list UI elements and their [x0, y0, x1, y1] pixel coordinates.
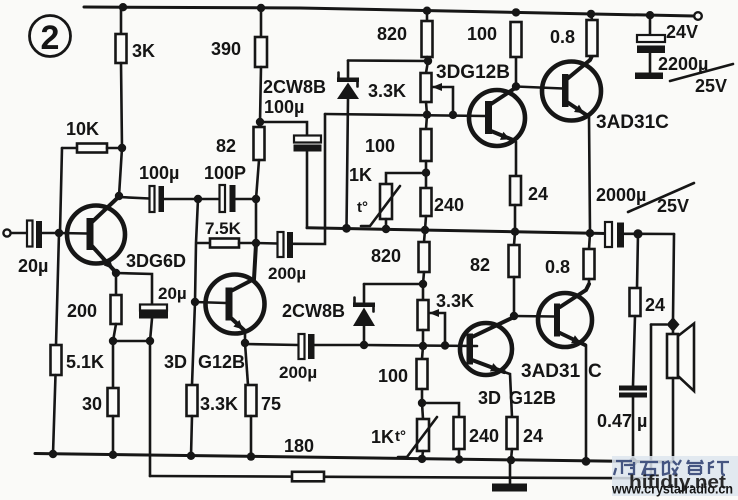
node: Q4 collector / Q5l base — [510, 312, 518, 320]
wire: base node to 5.1K — [56, 233, 59, 345]
resistor 180 — [284, 436, 324, 481]
svg-text:200µ: 200µ — [279, 363, 317, 382]
node: Q1 emitter — [112, 269, 120, 277]
wire: Q5u emitter to mid rail — [589, 116, 590, 233]
node: 390 bottom / bootstrap — [256, 118, 264, 126]
wire: 82 bottom node down to 7.5K node — [255, 199, 258, 243]
svg-text:180: 180 — [284, 436, 314, 456]
svg-text:2CW8B: 2CW8B — [282, 301, 345, 321]
wire: zener top to 820 bottom — [364, 280, 427, 288]
wire: 10K left end down to Q1 base node — [60, 148, 62, 232]
svg-text:100µ: 100µ — [139, 163, 179, 183]
svg-text:20µ: 20µ — [158, 284, 187, 303]
wire: 820 bottom to zener top — [348, 57, 432, 65]
svg-text:2200µ: 2200µ — [658, 54, 708, 74]
potentiometer 3.3K upper bias — [368, 61, 453, 115]
svg-text:3DG12B: 3DG12B — [436, 62, 510, 83]
svg-text:0.8: 0.8 — [550, 27, 575, 47]
wire: speaker top to feedback line — [651, 325, 667, 479]
wire: speaker bottom to ground rail — [672, 378, 675, 462]
node: Q2 emitter — [241, 339, 249, 347]
wire: feedback node link — [113, 340, 150, 343]
node: output junction — [633, 229, 642, 238]
svg-text:5.1K: 5.1K — [66, 352, 104, 372]
speaker — [667, 324, 694, 392]
ground symbol — [492, 460, 527, 492]
wire: output to speaker top — [673, 234, 674, 319]
transistor Q3 3DG12B upper driver — [436, 62, 525, 146]
svg-text:C: C — [588, 361, 602, 382]
svg-text:25V: 25V — [657, 196, 689, 216]
resistor 30 — [82, 341, 119, 455]
node: Q3 collector / 100 load / Q5u base — [512, 57, 563, 91]
node: bypass cap bottom — [146, 337, 154, 345]
svg-text:0.8: 0.8 — [545, 257, 570, 277]
svg-text:3.3K: 3.3K — [436, 291, 474, 311]
svg-text:3DG6D: 3DG6D — [126, 251, 186, 271]
capacitor 100u interstage coupling — [119, 163, 198, 212]
wire: lower base line — [364, 345, 477, 346]
resistor 100 middle — [365, 115, 432, 173]
resistor 24 lower — [507, 417, 544, 460]
node: 100u / 100P junction — [194, 195, 202, 203]
wire: feedback vertical to bottom feedback rail — [149, 341, 152, 476]
wire: Q3 emitter to 24 — [513, 140, 516, 176]
node: 100 lower bottom — [418, 399, 426, 407]
resistor 100 lower — [378, 346, 428, 403]
transistor Q4 3DG12B lower driver — [460, 317, 556, 408]
svg-text:820: 820 — [371, 246, 401, 266]
resistor 0.8 lower — [545, 233, 595, 284]
wire: Q2 base bias vertical — [191, 199, 199, 385]
resistor 240 upper — [421, 173, 465, 230]
svg-text:20µ: 20µ — [18, 256, 48, 276]
input terminal — [3, 229, 27, 236]
wire: Q4 emitter to 24 lower — [504, 372, 512, 417]
svg-text:3AD31: 3AD31 — [521, 361, 581, 382]
wire: top +24V supply rail — [84, 3, 694, 19]
svg-text:1K: 1K — [349, 165, 372, 185]
resistor 820 upper — [377, 11, 433, 61]
wire: mid output rail — [307, 224, 606, 237]
svg-text:24: 24 — [528, 184, 548, 204]
potentiometer 3.3K lower bias — [418, 284, 475, 346]
svg-text:240: 240 — [469, 426, 499, 446]
resistor 3.3K Q2 base to ground — [187, 385, 239, 456]
zener diode 2CW8B lower — [282, 284, 375, 345]
svg-text:82: 82 — [216, 136, 236, 156]
svg-text:7.5K: 7.5K — [205, 219, 242, 238]
resistor 75 — [245, 343, 281, 457]
svg-text:2CW8B: 2CW8B — [263, 77, 326, 97]
resistor 240 lower — [422, 403, 499, 460]
svg-text:200: 200 — [67, 301, 97, 321]
watermark — [611, 456, 738, 497]
svg-text:2: 2 — [41, 19, 60, 57]
resistor 10K — [62, 119, 122, 153]
wire: bottom feedback rail — [150, 476, 651, 478]
svg-text:24: 24 — [645, 295, 665, 315]
resistor 390 — [211, 8, 267, 122]
capacitor 0.47u zobel — [597, 386, 647, 466]
wire: Q5l emitter to ground rail — [582, 345, 591, 466]
node: 100P right / 82 bottom — [252, 195, 260, 203]
resistor 3K — [116, 7, 156, 63]
resistor 820 lower — [371, 230, 430, 284]
transistor Q2 3DG12B second stage — [164, 244, 265, 372]
node: 7.5K / 200u / Q2 collector — [252, 239, 260, 247]
svg-text:t°: t° — [357, 199, 368, 216]
svg-text:G12B: G12B — [509, 388, 556, 408]
svg-text:0.47: 0.47 — [597, 411, 632, 431]
svg-text:G12B: G12B — [198, 352, 245, 372]
node: 200 bottom / feedback junction — [109, 337, 117, 345]
svg-text:100µ: 100µ — [264, 97, 304, 117]
resistor 24 upper — [510, 176, 548, 232]
node: speaker top diamond junction — [667, 317, 680, 332]
thermistor 1K upper — [349, 165, 426, 229]
resistor 5.1K — [51, 345, 105, 454]
zener diode 2CW8B upper — [263, 61, 359, 229]
svg-text:2000µ: 2000µ — [596, 185, 646, 205]
capacitor 200u lower coupling — [245, 334, 364, 382]
svg-text:100P: 100P — [204, 163, 246, 183]
svg-text:25V: 25V — [695, 76, 727, 96]
resistor 200 — [67, 273, 122, 341]
node: lower base line junctions — [419, 341, 449, 350]
svg-text:3D: 3D — [164, 352, 187, 372]
svg-text:t°: t° — [395, 428, 406, 445]
transistor Q1 3DG6D — [59, 197, 186, 273]
svg-text:75: 75 — [261, 394, 281, 414]
svg-text:390: 390 — [211, 39, 241, 59]
svg-text:820: 820 — [377, 24, 407, 44]
node: lower zener bottom on base line — [360, 341, 368, 349]
+24V terminal — [694, 12, 702, 20]
capacitor 200u upper coupling — [256, 114, 325, 283]
svg-text:30: 30 — [82, 394, 102, 414]
svg-text:24V: 24V — [666, 22, 698, 42]
node: Q1 base — [55, 229, 63, 237]
wire: bottom ground rail — [35, 450, 673, 465]
svg-text:82: 82 — [470, 255, 490, 275]
svg-text:3D: 3D — [478, 388, 501, 408]
svg-text:1K: 1K — [371, 427, 394, 447]
capacitor 100P — [198, 163, 256, 212]
svg-text:hifidiy.net: hifidiy.net — [629, 472, 726, 492]
capacitor 100u bootstrap — [260, 97, 322, 228]
svg-text:100: 100 — [378, 366, 408, 386]
capacitor 2200u supply filter — [635, 15, 733, 96]
capacitor 20u input coupling — [18, 221, 59, 277]
resistor 0.8 upper — [550, 14, 598, 56]
transistor Q5 3AD31C upper output — [542, 57, 669, 133]
svg-text:3.3K: 3.3K — [200, 394, 238, 414]
svg-text:10K: 10K — [66, 119, 99, 139]
resistor 100 upper load — [467, 22, 522, 57]
svg-text:100: 100 — [467, 24, 497, 44]
svg-text:240: 240 — [434, 195, 464, 215]
resistor 82 driver load — [216, 122, 265, 199]
capacitor 20u emitter bypass — [116, 273, 187, 341]
thermistor 1K lower — [371, 403, 437, 459]
node: 100 bottom / thermistor / 240 — [422, 169, 430, 177]
svg-text:µ: µ — [637, 411, 647, 431]
svg-text:3K: 3K — [132, 41, 155, 61]
svg-text:200µ: 200µ — [268, 264, 306, 283]
resistor 24 zobel — [630, 234, 666, 386]
wire: 3K bottom to 10K node to Q1 collector node — [115, 63, 126, 200]
svg-text:3.3K: 3.3K — [368, 81, 406, 101]
transistor Q5 3AD31C lower output — [514, 284, 602, 382]
resistor 82 lower — [470, 232, 520, 316]
svg-text:100: 100 — [365, 136, 395, 156]
svg-text:24: 24 — [523, 426, 543, 446]
schematic figure number 2 — [30, 16, 71, 58]
capacitor 2000u output — [596, 183, 694, 248]
wire: upper base line with 200u tap — [325, 111, 485, 120]
resistor 7.5K — [197, 219, 256, 248]
svg-text:3AD31C: 3AD31C — [596, 112, 669, 133]
